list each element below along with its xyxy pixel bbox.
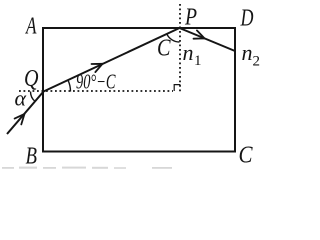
svg-text:n: n — [183, 40, 194, 65]
svg-text:α: α — [15, 86, 27, 111]
svg-text:C: C — [239, 143, 254, 169]
svg-text:n: n — [242, 40, 253, 65]
svg-text:D: D — [240, 6, 254, 32]
svg-text:C: C — [157, 36, 171, 62]
svg-text:P: P — [184, 5, 197, 31]
svg-text:90°−C: 90°−C — [76, 70, 116, 94]
svg-text:1: 1 — [194, 53, 202, 69]
svg-text:A: A — [25, 14, 37, 40]
svg-text:Q: Q — [24, 66, 39, 92]
svg-text:2: 2 — [253, 54, 261, 70]
svg-text:B: B — [26, 144, 38, 170]
